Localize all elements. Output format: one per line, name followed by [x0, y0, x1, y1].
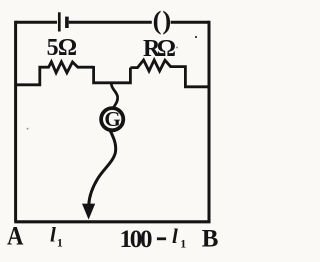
- svg-text:l: l: [50, 223, 56, 247]
- wire: right vertical rail: [208, 21, 211, 222]
- wire: curved lead from bridge tap down to galvanometer: [111, 84, 117, 108]
- wire: U link between resistor arms (galvanometer tap): [94, 66, 131, 83]
- wire: top rail left segment (battery side): [16, 21, 57, 24]
- speck (scan noise): [27, 128, 29, 130]
- resistor 5-ohm branch (left arm with zigzag): [16, 62, 94, 85]
- wire: bottom slide wire A to B: [14, 220, 210, 223]
- wire: curved jockey lead from galvanometer to slide wire: [89, 131, 116, 205]
- svg-text:5Ω: 5Ω: [47, 35, 78, 61]
- svg-text:A: A: [7, 221, 23, 250]
- wire: top rail right segment: [171, 21, 210, 24]
- svg-text:1: 1: [57, 235, 63, 249]
- battery cell: long plate: [58, 12, 61, 31]
- svg-text:G: G: [104, 107, 120, 131]
- battery cell: short plate: [65, 17, 69, 28]
- svg-text:100: 100: [120, 226, 153, 253]
- jockey arrowhead: [82, 204, 95, 220]
- svg-text:l: l: [172, 224, 178, 248]
- resistor R-ohm branch (right arm with zigzag): [130, 60, 209, 87]
- svg-text:1: 1: [180, 236, 186, 250]
- galvanometer G circle: [101, 108, 123, 130]
- speck (scan noise): [195, 36, 197, 38]
- svg-text:(: (: [153, 5, 162, 35]
- wire: left vertical rail: [14, 21, 17, 222]
- svg-text:RΩ: RΩ: [143, 36, 176, 62]
- wire: top rail middle segment: [69, 21, 152, 24]
- speck (scan noise): [176, 47, 178, 49]
- svg-text:): ): [162, 5, 171, 35]
- svg-text:B: B: [202, 225, 219, 252]
